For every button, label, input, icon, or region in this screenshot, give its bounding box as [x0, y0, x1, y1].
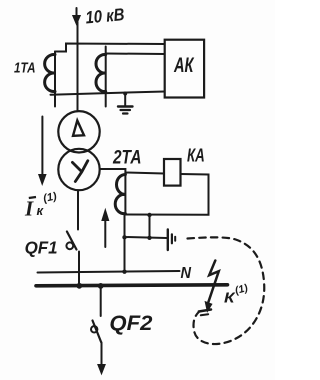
- svg-text:(1): (1): [234, 282, 250, 297]
- svg-text:10 кВ: 10 кВ: [85, 4, 126, 27]
- svg-text:2ТА: 2ТА: [112, 147, 141, 168]
- svg-text:1ТА: 1ТА: [14, 61, 36, 77]
- svg-text:(1): (1): [42, 190, 58, 205]
- svg-text:N: N: [181, 265, 192, 282]
- svg-text:КА: КА: [187, 145, 205, 166]
- svg-text:к: к: [37, 203, 45, 218]
- svg-text:I: I: [24, 197, 34, 221]
- svg-text:АК: АК: [173, 53, 194, 77]
- svg-text:QF1: QF1: [25, 238, 58, 258]
- svg-text:QF2: QF2: [109, 312, 152, 335]
